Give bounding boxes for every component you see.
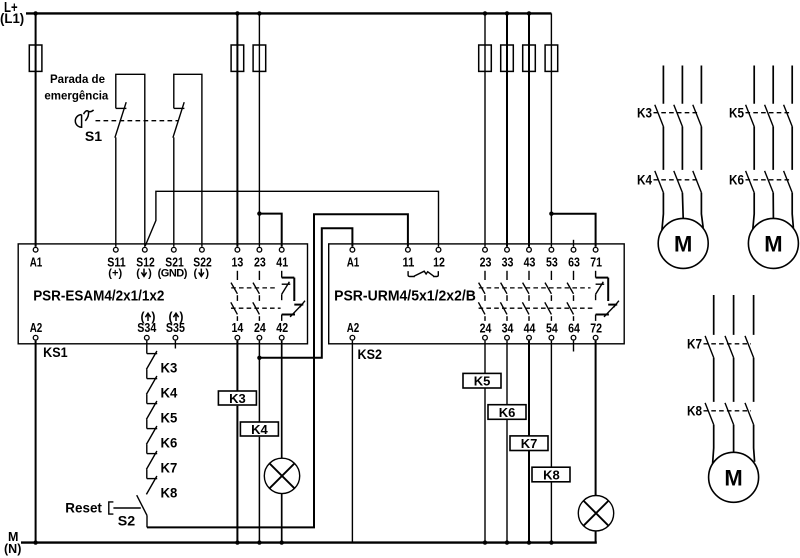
svg-text:24: 24 [480,322,492,336]
KS2 NO contact 43-44 [522,271,529,321]
contactor coil K4 [240,422,278,436]
svg-text:(GND): (GND) [158,267,188,279]
motor branch 1 phase wires [662,66,703,231]
svg-text:K6: K6 [499,405,516,420]
KS2 NC contact 71-72 [596,271,619,321]
emergency stop switch S1 contact 1 (S11-S12 loop) [115,74,145,246]
svg-text:S1: S1 [85,128,102,144]
fuse F6 [523,45,536,71]
fuse F7 [545,45,558,71]
junction on N at x=485 [483,540,487,544]
KS2 terminal pins bottom [350,335,598,340]
safety relay KS2 box [329,244,625,344]
KS1 NC contact 41-42 [282,271,305,321]
KS2 NO contact 23-24 [478,271,485,321]
fuse F5 [501,45,514,71]
NC contact K6 (chain) [146,426,157,454]
junction on L+ at x=35.6 [33,11,37,15]
KS2 mechanical link row 2 dashed [479,307,595,309]
svg-text:(L1): (L1) [0,10,24,26]
wire 44 to coil K7 to N [528,341,530,543]
junction on L+ at x=259.4 [257,11,261,15]
contactor K8 main contacts [705,403,754,425]
wire 34 to coil K6 to N [506,341,508,543]
junction on N at x=259.4 [257,540,261,544]
junction on L+ at x=485 [483,11,487,15]
NC contact K5 (chain) [146,401,157,429]
svg-text:K4: K4 [161,385,178,400]
svg-text:63: 63 [568,255,580,269]
svg-text:13: 13 [232,255,244,269]
svg-text:64: 64 [568,322,580,336]
svg-text:KS2: KS2 [358,346,383,362]
svg-text:41: 41 [276,255,288,269]
junction on N at x=507 [505,540,509,544]
svg-text:14: 14 [232,321,244,335]
svg-text:K5: K5 [474,374,491,389]
svg-text:S2: S2 [118,512,136,528]
svg-text:K8: K8 [161,485,178,500]
NC contact K7 (chain) [146,451,157,479]
wire fuse F5 drop to terminal 33 [506,13,508,246]
svg-text:72: 72 [590,322,602,336]
KS1 top terminal labels [30,255,288,269]
wire 42 to lamp H1 to N [281,341,283,543]
wire 54 to coil K8 to N [550,341,552,543]
contactor K6 main contacts [746,171,793,193]
wire feedback 12 to S12 [145,191,438,246]
svg-text:K4: K4 [637,173,652,188]
KS2 terminal pins top [350,247,598,252]
svg-text:K5: K5 [729,106,744,121]
wire A2 KS2 to N [351,341,353,543]
arrow glyph above S34 [145,313,150,321]
motor M3 [709,452,759,502]
NC contact K4 (chain) [146,376,157,404]
KS2 mechanical link row 1 dashed [479,287,591,289]
KS2 jumper symbol between 11 and 12 [408,271,438,276]
wire KS2 terminal 63 stub [573,240,575,247]
reset pushbutton S2 [109,495,147,527]
svg-text:A2: A2 [347,321,360,335]
wire branch to terminal 41 [259,214,281,247]
fuse F2 [231,45,244,71]
junction on L+ at x=529 [527,11,531,15]
wire 24 tap to A1 of KS2 [259,228,352,358]
svg-text:(+): (+) [108,267,122,279]
svg-text:33: 33 [502,255,514,269]
motor branch 2 phase wires [753,66,794,231]
svg-text:M: M [724,466,742,491]
wire 24 to coil K4 to N [258,341,260,543]
K7 link dashed [704,343,752,345]
safety relay KS1 box [18,244,307,344]
junction node 53/71 tap [549,212,553,216]
K3 link dashed [654,112,700,114]
svg-text:K6: K6 [729,173,744,188]
contactor coil K5 [463,373,501,388]
junction on N at x=551.4 [549,540,553,544]
wire A2 KS1 to N [35,341,37,543]
contactor K3 main contacts [655,105,702,127]
fuse F4 [479,45,492,71]
NC contact K3 (chain) [146,351,157,379]
junction on L+ at x=507 [505,11,509,15]
svg-text:PSR-URM4/5x1/2x2/B: PSR-URM4/5x1/2x2/B [334,287,476,304]
K6 link dashed [746,179,791,181]
contactor K5 main contacts [746,105,793,127]
svg-text:Parada de: Parada de [50,74,105,86]
svg-text:K6: K6 [161,435,178,450]
junction on N at x=237.4 [235,540,239,544]
KS1 NO contact 23-24 [253,271,260,321]
wire KS1 terminal S35 stub [174,341,176,349]
contactor coil K8 [532,467,570,482]
wire fuse F2 drop to terminal 13 [236,13,238,246]
svg-text:M: M [764,232,782,257]
svg-text:S35: S35 [166,321,185,335]
svg-text:71: 71 [590,255,602,269]
wire L+ rail [26,12,551,14]
svg-text:A1: A1 [30,255,43,269]
arrow glyph under S22 [199,269,204,277]
svg-text:K8: K8 [543,467,560,482]
wire branch to terminal 71 [551,214,595,247]
arrow glyph under S12 [141,269,146,277]
svg-text:K8: K8 [687,404,702,419]
svg-text:K7: K7 [521,436,538,451]
contactor coil K7 [510,436,548,451]
emergency stop switch S1 contact 2 (S21-S22 loop) [173,74,202,246]
S1 mechanical link dashed [96,120,179,122]
junction node 24 tap [257,356,261,360]
svg-text:S34: S34 [137,321,156,335]
NC contact K8 (chain) [146,476,157,494]
svg-text:K7: K7 [687,337,702,352]
wire reset path to terminal 11 [147,214,408,527]
svg-text:23: 23 [254,255,266,269]
svg-text:53: 53 [546,255,558,269]
KS2 NO contact 53-54 [545,271,552,321]
indicator lamp H1 [264,458,299,493]
svg-text:Reset: Reset [65,499,102,515]
wire fuse F4 drop to terminal 23 of KS2 [484,13,486,246]
KS2 top terminal labels [347,255,602,269]
wire S34 to K3 chain [146,341,148,354]
svg-text:A1: A1 [347,255,360,269]
svg-text:emergência: emergência [44,90,109,102]
svg-text:K5: K5 [161,410,178,425]
KS1 mechanical link row 1 dashed [231,287,276,289]
contactor coil K3 [218,391,256,405]
svg-text:PSR-ESAM4/2x1/1x2: PSR-ESAM4/2x1/1x2 [33,287,164,304]
wire 72 to lamp H2 to N [595,341,597,543]
svg-text:54: 54 [546,322,558,336]
contactor K7 main contacts [705,336,754,358]
indicator lamp H2 [578,496,613,531]
svg-text:11: 11 [403,255,415,269]
KS1 mechanical link row 2 dashed [231,307,281,309]
svg-text:42: 42 [276,321,288,335]
wire fuse F6 drop to terminal 43 [528,13,530,246]
fuse F1 [29,45,42,71]
fuse F3 [253,45,266,71]
wire fuse F7 drop to terminal 53 [550,13,552,246]
KS1 terminal pins top [33,247,284,252]
wire N rail [21,541,597,543]
svg-text:34: 34 [502,322,514,336]
junction on L+ at x=237.4 [235,11,239,15]
svg-text:(N): (N) [4,542,21,556]
svg-text:KS1: KS1 [43,344,68,360]
contactor K4 main contacts [655,171,702,193]
motor M2 [748,218,798,268]
K8 link dashed [704,410,752,412]
svg-text:24: 24 [254,321,266,335]
contactor coil K6 [488,405,526,420]
svg-text:K3: K3 [229,391,246,406]
K4 link dashed [654,179,700,181]
junction on N at x=281.7 [280,540,284,544]
junction on N at x=529 [527,540,531,544]
arrow glyph above S35 [173,313,178,321]
svg-text:43: 43 [524,255,536,269]
wire L+ to fuse F1 to A1 of KS1 [35,13,37,246]
S1 emergency stop actuator symbol [75,110,93,127]
wire 14 to coil K3 to N [236,341,238,543]
svg-text:23: 23 [480,255,492,269]
motor M1 [658,218,708,268]
K5 link dashed [746,112,791,114]
svg-text:M: M [674,232,692,257]
motor branch 3 phase wires [713,295,755,464]
KS1 NO contact 13-14 [231,271,238,321]
svg-text:K3: K3 [637,106,652,121]
svg-text:K3: K3 [161,360,178,375]
junction on N at x=35.6 [33,540,37,544]
KS1 top terminal sublabels [108,267,209,279]
svg-text:K7: K7 [161,460,178,475]
wire fuse F3 drop to terminal 23 [258,13,260,246]
KS1 terminal pins bottom [33,335,284,340]
wire KS2 terminal 64 stub [573,341,575,352]
wire 24 KS2 to coil K5 to N [484,341,486,543]
svg-text:44: 44 [524,322,536,336]
KS2 NO contact 33-34 [500,271,507,321]
svg-text:A2: A2 [30,321,43,335]
KS1 bottom terminal labels [30,310,288,335]
KS2 NO contact 63-64 [567,271,574,321]
svg-text:12: 12 [433,255,445,269]
KS2 bottom terminal labels [347,321,602,336]
junction node 23/41 tap [257,211,261,215]
svg-text:K4: K4 [251,422,268,437]
